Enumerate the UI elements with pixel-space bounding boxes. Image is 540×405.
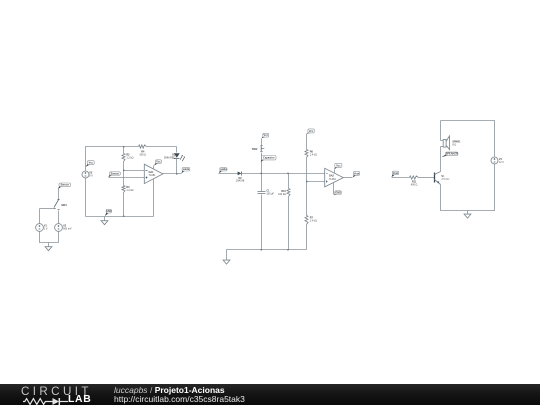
svg-text:500 mV: 500 mV [63, 228, 72, 231]
svg-text:SPEAKER: SPEAKER [446, 153, 458, 156]
svg-text:GND: GND [106, 210, 112, 213]
svg-text:2N2222: 2N2222 [441, 179, 450, 181]
svg-text:Vcc: Vcc [156, 161, 161, 164]
svg-text:Sensor: Sensor [111, 172, 120, 175]
svg-text:100 kΩ: 100 kΩ [278, 193, 286, 196]
svg-text:saida: saida [183, 168, 190, 171]
svg-text:5MM RED: 5MM RED [164, 156, 175, 159]
svg-text:Sensor: Sensor [61, 184, 70, 187]
svg-text:Q1: Q1 [441, 176, 445, 178]
svg-text:Vcc: Vcc [264, 134, 269, 137]
svg-text:Vcc: Vcc [309, 130, 314, 133]
svg-text:saida: saida [220, 168, 227, 171]
svg-text:1.4 kΩ: 1.4 kΩ [310, 220, 317, 223]
svg-text:400 Ω: 400 Ω [411, 184, 418, 187]
svg-text:Vout: Vout [393, 172, 399, 175]
svg-text:8 Ω: 8 Ω [452, 144, 456, 147]
svg-text:GND: GND [335, 192, 341, 195]
svg-text:SW1: SW1 [61, 203, 67, 207]
svg-text:5 V: 5 V [89, 175, 93, 178]
svg-text:Vout: Vout [354, 172, 360, 175]
svg-text:SW2: SW2 [252, 147, 258, 151]
svg-text:1.2 kΩ: 1.2 kΩ [126, 157, 133, 160]
svg-text:TL081: TL081 [329, 178, 337, 181]
svg-text:1 V: 1 V [44, 228, 48, 231]
svg-text:TL081: TL081 [149, 174, 157, 177]
svg-text:1N4148: 1N4148 [236, 180, 245, 183]
svg-text:Vcc: Vcc [336, 164, 341, 167]
svg-text:Vcc: Vcc [89, 162, 94, 165]
svg-text:1.2 kΩ: 1.2 kΩ [126, 189, 133, 192]
svg-text:500 Ω: 500 Ω [140, 154, 147, 157]
svg-text:1.4 kΩ: 1.4 kΩ [310, 153, 317, 156]
svg-text:12 V: 12 V [499, 161, 504, 164]
svg-text:Capacitor: Capacitor [263, 157, 275, 160]
svg-text:100 µF: 100 µF [266, 193, 274, 196]
